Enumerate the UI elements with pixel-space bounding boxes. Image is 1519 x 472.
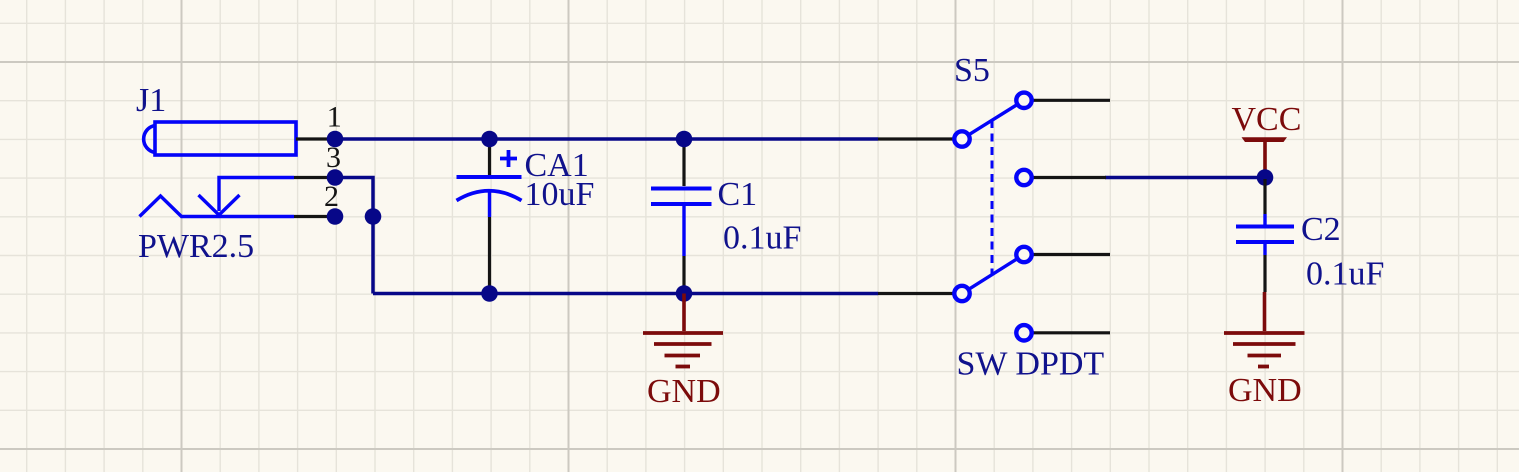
junction pin2 to vertical wire bbox=[365, 208, 382, 225]
S5 contact circle upper common bbox=[954, 131, 969, 146]
S5 lever upper pole bbox=[970, 105, 1017, 134]
capacitor CA1 curved bottom plate bbox=[457, 191, 522, 201]
CA1 plus sign bbox=[500, 150, 517, 167]
wire S5 output to VCC node bbox=[1105, 176, 1265, 180]
svg-text:C2: C2 bbox=[1301, 211, 1341, 248]
connector J1 barrel body bbox=[144, 122, 296, 155]
svg-text:1: 1 bbox=[327, 101, 342, 134]
junction J1 pin2 bbox=[327, 208, 344, 225]
svg-text:GND: GND bbox=[1228, 372, 1302, 409]
svg-text:J1: J1 bbox=[136, 82, 166, 119]
capacitor CA1 top plate bbox=[457, 175, 522, 179]
junction C1 bottom bbox=[676, 285, 693, 302]
junction VCC node bbox=[1257, 169, 1274, 186]
S5 contact circle throw 1 bbox=[1016, 93, 1031, 108]
C1 lower lead bbox=[682, 256, 685, 292]
capacitor C2 plates bbox=[1236, 227, 1294, 243]
switch S5 upper common pin bbox=[878, 137, 954, 140]
capacitor CA1 upper lead bbox=[488, 141, 491, 175]
svg-text:C1: C1 bbox=[718, 176, 758, 213]
C2 upper lead blue part bbox=[1263, 214, 1266, 225]
J1 sleeve contact zigzag bbox=[140, 196, 295, 217]
junction J1 pin3 bbox=[327, 169, 344, 186]
S5 contact circle throw 3 bbox=[1016, 247, 1031, 262]
CA1 lower lead bbox=[488, 217, 491, 292]
junction CA1 bottom bbox=[481, 285, 498, 302]
J1 pin 1 bbox=[296, 137, 336, 140]
ground symbol GND2 stub bbox=[1263, 292, 1267, 331]
S5 throw pin 3 bbox=[1032, 253, 1110, 256]
C2 lower lead bbox=[1263, 255, 1266, 292]
wire net top: J1 pin1 to S5 upper common bbox=[335, 137, 878, 141]
S5 lever lower pole bbox=[970, 259, 1017, 289]
S5 contact circle lower common bbox=[954, 286, 969, 301]
capacitor C1 upper lead bbox=[682, 141, 685, 186]
ground symbol GND1 stub bbox=[682, 294, 686, 332]
S5 mechanical link dashed line bbox=[991, 120, 994, 275]
svg-text:GND: GND bbox=[647, 373, 721, 410]
S5 contact circle throw 2 bbox=[1016, 170, 1031, 185]
svg-text:SW DPDT: SW DPDT bbox=[957, 346, 1105, 383]
svg-text:VCC: VCC bbox=[1232, 101, 1302, 138]
GND1 bars bbox=[643, 333, 723, 367]
svg-text:PWR2.5: PWR2.5 bbox=[138, 228, 254, 265]
junction CA1 top bbox=[481, 131, 498, 148]
svg-text:0.1uF: 0.1uF bbox=[1306, 256, 1384, 293]
VCC short lead bbox=[1263, 170, 1266, 177]
capacitor C2 upper lead bbox=[1263, 179, 1266, 214]
wire jumper: J1 pin3 across to vertical drop at x=373 bbox=[335, 178, 373, 294]
S5 throw pin 1 bbox=[1032, 99, 1110, 102]
J1 switch contact: blue L from pin3 with arrow bbox=[199, 178, 295, 216]
svg-text:S5: S5 bbox=[954, 52, 990, 89]
S5 throw pin 2 (output) bbox=[1032, 176, 1106, 179]
J1 pin 3 bbox=[294, 176, 336, 179]
S5 throw pin 4 bbox=[1032, 331, 1110, 334]
switch S5 lower common pin bbox=[878, 292, 954, 295]
power port VCC bar bbox=[1242, 137, 1288, 142]
J1 pin 2 bbox=[294, 215, 336, 218]
CA1 lower lead blue part bbox=[488, 191, 491, 217]
junction J1 pin1 / top net bbox=[327, 131, 344, 148]
capacitor C1 plates bbox=[651, 189, 712, 205]
VCC stub bbox=[1263, 141, 1267, 170]
svg-text:0.1uF: 0.1uF bbox=[723, 220, 801, 257]
junction C1 top bbox=[676, 131, 693, 148]
C1 lower lead blue part bbox=[682, 206, 685, 256]
C2 lower lead blue part bbox=[1263, 244, 1266, 255]
svg-text:10uF: 10uF bbox=[525, 176, 595, 213]
wire net bottom: return to S5 lower common bbox=[373, 292, 878, 296]
GND2 bars bbox=[1224, 333, 1305, 367]
S5 contact circle throw 4 bbox=[1016, 325, 1031, 340]
